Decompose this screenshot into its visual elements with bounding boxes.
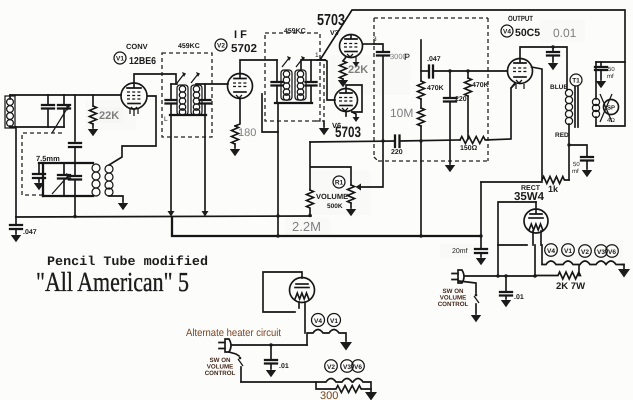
capacitor C2 antenna tuning (variable) (52, 95, 70, 133)
wire IF1 secondary return to bus (202, 115, 209, 217)
svg-text:V1: V1 (330, 318, 338, 325)
resistor 470K output grid (465, 71, 472, 139)
tube alt heater 12BE6 (290, 278, 315, 303)
wire to heater humps V4 V1 (307, 330, 346, 346)
svg-text:V2: V2 (217, 43, 225, 50)
heater string ground (618, 265, 630, 278)
svg-text:SP: SP (607, 105, 615, 112)
svg-text:OUTPUT: OUTPUT (508, 14, 533, 23)
svg-text:V1: V1 (116, 56, 124, 63)
IF2 bottom bar (275, 102, 312, 104)
svg-text:.047: .047 (427, 56, 441, 63)
rectifier box (498, 202, 536, 245)
resistor 2K 7W (535, 265, 580, 279)
svg-text:V6: V6 (608, 249, 616, 256)
wire 1k feed (481, 181, 542, 183)
svg-text:V4: V4 (314, 318, 322, 325)
svg-text:10M: 10M (390, 106, 413, 120)
svg-text:V1: V1 (564, 248, 572, 255)
svg-text:50: 50 (608, 66, 615, 73)
svg-text:.01: .01 (279, 363, 289, 370)
scan noise patches (86, 20, 623, 262)
volume control feed (310, 142, 351, 190)
svg-text:V6: V6 (354, 364, 362, 371)
IF1 secondary winding (191, 85, 202, 115)
oscillator coil box (39, 163, 93, 196)
svg-text:mf: mf (572, 168, 579, 175)
wire alt tube pin left (298, 302, 300, 308)
switch on volume control (bottom) (229, 352, 243, 382)
svg-text:V4: V4 (547, 248, 555, 255)
wire V4 screen to B+ (532, 67, 543, 180)
trimmer arrow IF2 secondary (296, 56, 305, 67)
tube designator circle V2 (215, 39, 227, 51)
svg-text:0.01: 0.01 (553, 26, 577, 40)
svg-text:mf: mf (607, 73, 614, 80)
wire V4 plate to transformer (520, 47, 567, 90)
shield ground dash-dot (315, 64, 329, 135)
capacitor osc tuning (variable) (52, 163, 70, 196)
svg-text:CONV: CONV (126, 42, 148, 51)
wire B+ boundary diagonal and top rail (320, 10, 625, 62)
svg-text:V3: V3 (343, 364, 351, 371)
svg-text:V4: V4 (503, 29, 511, 36)
arrow down end (365, 392, 377, 400)
IF1 primary winding (177, 85, 188, 115)
wiper arrow to AVC (356, 141, 384, 191)
svg-text:.01: .01 (514, 294, 524, 301)
wire IF2 secondary to detector grids (301, 60, 325, 70)
speaker SP (600, 94, 619, 122)
wire rect heater pin left (533, 231, 535, 276)
ground bus 2 (172, 217, 481, 236)
oscillator coil T2 secondary (105, 165, 113, 196)
svg-text:1: 1 (315, 52, 319, 59)
svg-text:P: P (404, 52, 410, 62)
AC plug bottom (219, 339, 307, 352)
potentiometer R1 500K element (346, 185, 356, 216)
wire secondary top (595, 62, 597, 99)
heater circles V2 V3 V6 (325, 360, 365, 373)
alt heater box (263, 272, 302, 312)
resistor volume lower section (307, 190, 314, 216)
tube designator circle V1 (114, 52, 126, 64)
trimmer arrow IF1 primary (177, 72, 186, 83)
svg-text:22K: 22K (99, 110, 119, 122)
capacitor C1 antenna fixed (42, 95, 54, 127)
svg-text:"All American" 5: "All American" 5 (36, 266, 189, 297)
IF1 shield dashed box (162, 53, 212, 137)
svg-text:VOLUME: VOLUME (316, 192, 348, 201)
svg-text:RED: RED (555, 132, 569, 139)
heater wire V2 V3 V6 (241, 379, 371, 393)
capacitor C3 series (osc grid) (69, 143, 81, 163)
svg-text:50: 50 (573, 161, 580, 168)
svg-text:12BE6: 12BE6 (129, 56, 156, 67)
resistor 22K (AVC) (88, 95, 98, 136)
tube V3 5703 detector (340, 35, 363, 58)
svg-text:R1: R1 (335, 180, 344, 187)
svg-text:459KC: 459KC (284, 28, 306, 35)
arrow down after V4 V1 (340, 342, 352, 351)
tube V4 50C5 output (508, 59, 533, 90)
svg-text:2.2M: 2.2M (292, 219, 321, 234)
wire osc cap feed (74, 95, 76, 141)
wire detector grid feed (317, 60, 335, 100)
capacitor .01 line filter right (500, 276, 512, 307)
heater string resistive wire (542, 261, 624, 265)
wire IF1 primary return to bus (168, 115, 175, 217)
wire secondary bottom (595, 117, 597, 126)
IF2 secondary winding (295, 70, 306, 100)
svg-text:470K: 470K (427, 85, 444, 92)
svg-text:22K: 22K (348, 64, 368, 76)
antenna coil L1 (5, 95, 15, 128)
svg-text:.047: .047 (23, 229, 37, 236)
wire V4 cathode to bus (511, 83, 515, 88)
oscillator coil T2 primary (92, 164, 100, 196)
resistor 22K V3 cathode (338, 57, 348, 87)
switch on volume control (right) (459, 281, 481, 322)
capacitor 3000P (374, 44, 389, 141)
svg-text:5703: 5703 (335, 124, 361, 141)
svg-text:20mf: 20mf (452, 247, 468, 255)
capacitor IF1 primary side (166, 84, 178, 115)
wire IF1 secondary to V2 grid (196, 83, 228, 85)
tube V2 5702 IF amp (228, 74, 253, 99)
AVC bus wire (310, 141, 394, 142)
wire osc coil to V1 grid (109, 96, 156, 165)
wire alt tube pin right to heater wire (304, 302, 306, 333)
capacitor 20mf (475, 236, 487, 265)
svg-text:CONTROL: CONTROL (205, 370, 236, 377)
speaker box (596, 62, 625, 126)
tube V1 12BE6 converter (121, 83, 147, 116)
IF1 bottom bar (170, 114, 206, 116)
svg-text:500K: 500K (327, 203, 343, 210)
IF2 primary winding (281, 70, 292, 100)
wire rect box to AC line (497, 245, 499, 276)
capacitor .047 to ground bottom-left (10, 217, 22, 242)
transformer designator circle T1 (570, 74, 582, 86)
svg-text:459KC: 459KC (178, 43, 200, 50)
AC plug right (452, 270, 536, 283)
resistor 1k (542, 177, 569, 184)
transformer core (575, 87, 578, 127)
junction dots AC (269, 45, 570, 346)
capacitor 220 to ground (444, 71, 456, 172)
capacitor 50mf output filter (595, 62, 607, 88)
wire rect heater pin right (541, 231, 542, 264)
capacitor IF2 secondary side (306, 60, 317, 103)
capacitor .01 alt line (265, 345, 277, 377)
svg-text:Alternate heater circuit: Alternate heater circuit (186, 327, 281, 339)
wire T1 primary return (RED) to B+ node (568, 124, 570, 180)
tube V6 5703 (335, 89, 358, 112)
capacitor IF1 secondary side (200, 84, 211, 115)
svg-text:220: 220 (391, 149, 403, 156)
svg-text:220: 220 (455, 96, 467, 103)
wire V3 extra pin arrow (353, 57, 360, 67)
wire osc coil bottom to ground (109, 196, 128, 210)
wire V1 plate to IF1 (134, 74, 176, 84)
wire B+ node branch to filter cap (569, 145, 587, 156)
wire antenna top rail (10, 94, 121, 96)
label SW ON VOLUME CONTROL right (438, 288, 469, 308)
svg-text:T1: T1 (572, 78, 580, 85)
trimmer arrow IF2 primary (282, 56, 291, 67)
wire V3 plate to pin3 (363, 43, 375, 45)
capacitor 0.01 plate to ground (547, 47, 559, 70)
heater circles V4 V1 (312, 314, 341, 327)
trimmer arrow IF1 secondary (191, 72, 200, 83)
wire V6 cathode with arrow (346, 112, 360, 123)
wire V2 plate to IF2 (240, 60, 277, 74)
svg-text:V2: V2 (327, 364, 335, 371)
capacitor 50mf B+ filter (581, 157, 593, 177)
heater string designator circles V4 V1 V2 V3 V6 (545, 244, 619, 258)
ground bus 1 (16, 216, 311, 217)
output transformer T1 secondary (592, 98, 599, 117)
resistor 150ohm (460, 84, 515, 144)
svg-text:V3: V3 (597, 249, 605, 256)
capacitor 220 series AVC (395, 136, 460, 148)
svg-text:BLUE: BLUE (550, 84, 568, 91)
capacitor .047 coupling (421, 66, 507, 78)
capacitor osc fixed (69, 163, 81, 216)
svg-text:1k: 1k (548, 184, 559, 194)
svg-text:CONTROL: CONTROL (438, 301, 469, 308)
IF2 shield dashed box (265, 33, 320, 121)
svg-text:50C5: 50C5 (515, 27, 540, 39)
wire V2 heater pin to bus drop (262, 94, 278, 132)
wire antenna bottom rail (10, 126, 64, 128)
svg-text:I F: I F (234, 29, 247, 41)
svg-text:150Ω: 150Ω (460, 145, 478, 152)
oscillator dashed box (22, 133, 62, 195)
resistor 180 (230, 126, 240, 156)
capacitor padder (7.5mm) (33, 163, 45, 190)
wire rect output riser (480, 182, 482, 236)
svg-text:300: 300 (320, 390, 338, 400)
capacitor IF2 primary side (272, 60, 283, 103)
svg-text:470K: 470K (472, 82, 489, 89)
label SW ON VOLUME CONTROL bottom (205, 357, 236, 377)
svg-text:5702: 5702 (231, 43, 257, 55)
wire V2 cathode (235, 98, 240, 126)
detector module dash-dot box (374, 18, 488, 161)
tube designator circle V4 (501, 25, 513, 37)
svg-text:L: L (164, 116, 168, 123)
output transformer T1 primary (565, 89, 572, 124)
wire left vertical to ground bus (15, 127, 17, 217)
svg-text:4Ω: 4Ω (607, 117, 615, 124)
svg-text:7.5mm: 7.5mm (36, 154, 60, 163)
wire V6 plate feedback loop (346, 85, 362, 112)
tube V5 35W4 rectifier (524, 202, 548, 233)
junction dots bus2 (73, 69, 482, 237)
resistor 300 shunt (316, 382, 371, 393)
wire IF2 return to bus2 (277, 103, 279, 236)
svg-text:V2: V2 (581, 249, 589, 256)
svg-text:180: 180 (238, 127, 256, 139)
svg-text:2K 7W: 2K 7W (556, 281, 585, 292)
resistor 470K then 10M chain (418, 40, 425, 236)
pot designator circle R1 (333, 176, 345, 188)
